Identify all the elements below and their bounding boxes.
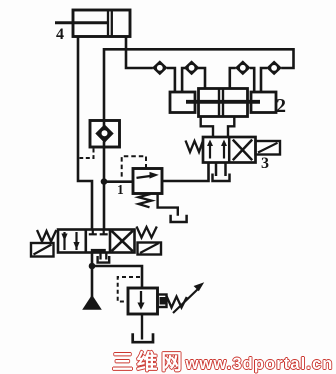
check valve d3 ball <box>240 65 246 71</box>
relief valve spring <box>167 296 187 308</box>
reducing valve 1 pilot dashed <box>122 156 146 179</box>
reducing valve 1 spring <box>139 194 152 207</box>
valve 3 spring <box>186 141 204 153</box>
clamp cylinder 2 right block <box>251 92 276 113</box>
pilot check valve poppet <box>95 124 113 143</box>
check valve d4 ball <box>271 65 277 71</box>
relief valve body <box>128 288 158 314</box>
node junction at B-line <box>101 178 108 185</box>
relief valve drain <box>141 314 143 340</box>
cylinder 4 body <box>73 10 130 37</box>
check valve d4 <box>266 61 282 76</box>
reducing valve 1 drain line <box>158 194 178 216</box>
relief valve adjust arrow <box>173 288 199 313</box>
label 4 <box>56 27 64 43</box>
wire P to relief valve <box>92 266 142 288</box>
directional valve centre blocked ports <box>92 230 94 235</box>
directional valve left spring <box>37 230 56 242</box>
directional valve tank stubs <box>99 253 101 260</box>
pilot check valve box <box>90 121 120 148</box>
label 3 <box>261 156 269 172</box>
valve 3 tank stubs <box>215 163 218 177</box>
wire rod-end line from cylinder 4 down to check rail <box>126 37 153 68</box>
pilot line dashed from check valve <box>80 149 94 159</box>
valve 3 crossed position <box>233 140 252 161</box>
directional valve right solenoid <box>138 243 162 255</box>
wire A-line from cylinder 4 head end down <box>78 37 92 230</box>
wire d2-d3 links to clamp cylinder <box>197 68 205 90</box>
clamp cylinder 2 barrel <box>199 89 248 117</box>
clamp cylinder 2 lower T mount <box>201 117 235 138</box>
check valve d2 ball <box>189 65 195 71</box>
valve 3 flow arrows <box>209 144 211 159</box>
clamp cylinder 2 left block <box>170 92 195 113</box>
wire d1-d2 links to clamp left block <box>167 68 175 93</box>
node P junction <box>89 263 96 270</box>
check valve d1 <box>152 60 168 75</box>
check valve d2 <box>184 60 200 75</box>
valve 3 body <box>203 137 256 163</box>
wire B-line below check box <box>103 147 106 230</box>
valve 3 arrowheads <box>207 140 213 147</box>
cylinder 4 rod <box>55 21 108 24</box>
wire P-line to pump <box>91 253 94 298</box>
valve 3 solenoid <box>256 141 281 155</box>
label 2 <box>276 96 286 116</box>
label 1 <box>117 183 124 197</box>
directional valve left solenoid <box>31 243 54 257</box>
directional valve right box cross <box>112 231 133 251</box>
relief valve pilot dashed <box>118 277 140 302</box>
wire reducing valve outlet to valve 3 <box>162 163 209 182</box>
valve 3 tank <box>213 174 230 182</box>
reducing valve 1 body <box>133 169 162 194</box>
check valve d1 ball <box>157 65 163 71</box>
check valve d3 <box>235 60 251 75</box>
relief valve flow line <box>140 291 142 304</box>
wire top supply rail <box>104 49 294 121</box>
clamp cylinder 2 piston <box>218 89 220 117</box>
directional valve left box arrows <box>63 232 65 250</box>
cylinder 4 piston <box>107 10 109 37</box>
tank below reducing valve <box>171 215 187 222</box>
reducing valve 1 flow arrow <box>137 176 152 178</box>
clamp cylinder 2 rod <box>186 100 260 104</box>
tank below directional valve <box>98 256 110 263</box>
directional valve right spring <box>137 227 157 238</box>
directional valve body <box>58 230 135 253</box>
directional valve arrowheads <box>61 234 67 242</box>
relief valve stub <box>158 295 167 308</box>
watermark <box>112 346 333 374</box>
pressure source <box>82 295 102 310</box>
wire branch to reducing valve 1 <box>104 180 133 183</box>
tank below relief valve <box>133 333 153 342</box>
wire d3-d4 links to clamp right block <box>250 68 254 93</box>
